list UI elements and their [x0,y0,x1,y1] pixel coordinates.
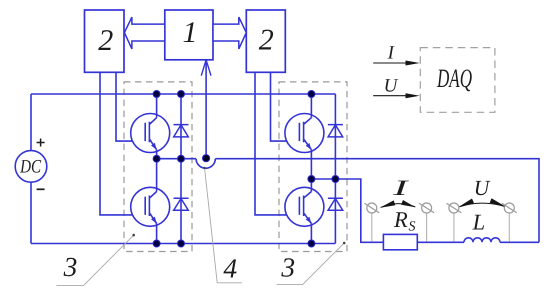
hollow arrow block1 to block2 right [213,17,246,49]
diode D4 (lower right) [328,198,343,210]
wire: top DC bus [31,93,335,95]
svg-text:U: U [384,76,399,97]
wire: left leg midpoint rail [157,158,197,160]
plus sign [37,139,45,147]
wire: gate wire from block2R to Q4 (lower right IGBT) [255,72,299,215]
wire: bottom DC bus [31,243,335,245]
node 4 dot [203,155,210,162]
terminal T3 [447,203,462,242]
resistor RS [383,234,417,249]
block 2 left [85,10,125,72]
diode D3 (upper right) [328,125,343,137]
wire: resistor to bridge [311,179,383,242]
wire: left transistor column segments [156,94,158,244]
svg-text:3: 3 [63,251,78,282]
diode D2 (lower left) [174,198,189,210]
transistor Q3 (upper right IGBT) [285,114,324,153]
svg-text:S: S [409,220,416,235]
wire: feedback wire node4 up to block1 [205,63,207,158]
svg-text:U: U [474,176,491,200]
wire: between inductor and resistor [417,241,464,243]
dashed enclosure left leg (3) [124,82,192,252]
wire: left vertical from DC source [30,94,32,244]
minus sign [37,188,45,190]
wire: left diode column [180,94,182,244]
terminal T2 [419,203,434,242]
arrow U into DAQ [373,95,407,97]
transistor Q1 (upper left IGBT) [131,114,170,153]
terminal T1 [364,203,379,242]
svg-text:DAQ: DAQ [436,63,472,93]
transistor Q4 (lower right IGBT) [285,187,324,226]
svg-text:2: 2 [98,24,113,57]
dashed enclosure right leg (3) [279,82,347,252]
DAQ dashed box [420,48,495,113]
svg-text:DC: DC [19,157,41,178]
arrowhead into block1 [201,60,211,76]
svg-text:1: 1 [183,16,198,49]
wire: gate wire from block2L to Q2 (lower left IGBT) [100,72,145,215]
hollow arrow block1 to block2 left [124,17,164,49]
block 2 right [246,10,285,72]
wire: load bottom wire right of inductor [500,241,539,243]
svg-text:4: 4 [223,252,237,283]
wire: hop under node 4 [196,159,215,169]
diode D1 (upper left) [174,125,189,137]
svg-text:R: R [393,207,408,232]
junction dots left midpoint [153,155,160,162]
svg-text:L: L [472,209,486,234]
svg-text:2: 2 [259,24,274,57]
U measurement arrows [460,203,505,207]
wire: gate wire from block2L to Q1 (upper left IGBT) [116,72,145,141]
block 1 [165,10,213,60]
junction dots bottom bus [153,240,160,247]
terminal T4 [502,203,517,242]
junction dots top bus [153,91,160,98]
transistor Q2 (lower left IGBT) [131,187,170,226]
wire: right transistor column segments [310,94,312,244]
svg-text:3: 3 [280,251,295,282]
arrow I into DAQ [373,62,407,64]
I measurement arrows [381,204,415,208]
wire: right diode column [334,94,336,244]
wire: load return long wire [215,159,539,243]
inductor L [464,238,500,243]
wire: gate wire from block2R to Q3 (upper right IGBT) [271,72,300,141]
junction dots right midpoint [308,176,315,183]
DC source circle [15,151,47,183]
